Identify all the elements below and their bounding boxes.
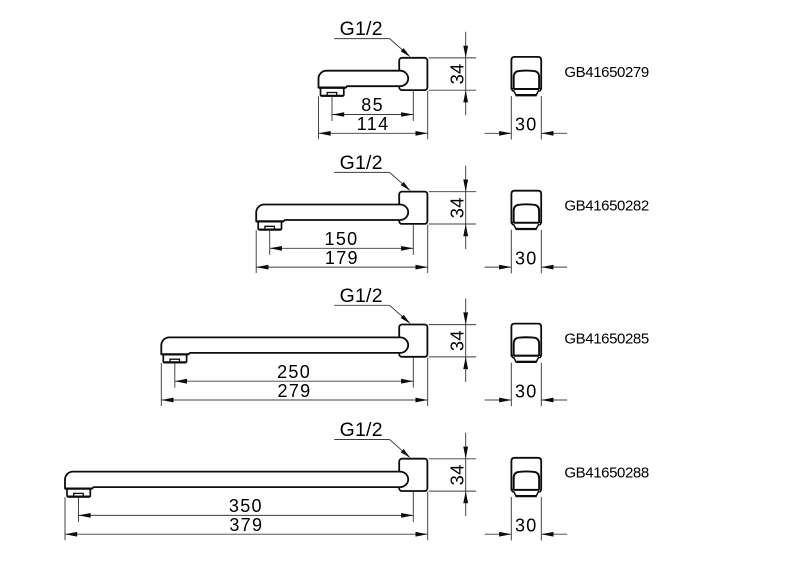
spout 3 aerator (side view) [163, 354, 186, 362]
spout 4 aerator bottom thick edge [68, 496, 89, 498]
spout 4 front view side tabs [512, 490, 514, 492]
dimension 30 row 3 [485, 399, 512, 401]
spout 4 tip bottom thick edge [66, 487, 92, 489]
extension line at block right edge row 3 [427, 358, 429, 407]
extension line at block right edge row 4 [427, 492, 429, 541]
spout 2 front view bottom edge [511, 222, 542, 224]
spout 1 wall block (side view) [399, 58, 427, 90]
spout 2 tip bottom thick edge [257, 220, 283, 222]
spout 2 front view tube face [514, 204, 539, 222]
spout 4 front view bottom edge [511, 489, 542, 491]
svg-text:179: 179 [325, 248, 359, 268]
spout 1 aerator insert (side view) [327, 93, 337, 96]
G1/2 leader line row 2 [334, 171, 389, 173]
spout 2 front view aerator [513, 224, 539, 229]
dimension 179 row 2 [256, 266, 428, 268]
spout 2 tube body (side view) [256, 205, 408, 222]
extension line at aerator centre row 1 [331, 96, 333, 121]
spout 3 front view side tabs [512, 355, 514, 357]
spout 4 wall block (side view) [399, 459, 427, 491]
extension lines front view row 1 [510, 96, 512, 140]
spout 1 front view outline [511, 57, 541, 89]
extension line at block centre row 3 [412, 358, 414, 388]
dimension 250 row 3 [175, 380, 413, 382]
spout 2 front view outline [511, 191, 541, 223]
spout 3 aerator bottom thick edge [164, 361, 185, 363]
svg-text:GB41650285: GB41650285 [564, 331, 648, 348]
dimension 114 row 1 [319, 132, 428, 134]
dimension 34 row 2 [465, 166, 467, 249]
extension line at block centre row 1 [412, 91, 414, 121]
spout 2 aerator insert (side view) [265, 226, 275, 229]
spout 1 tip bottom thick edge [319, 87, 345, 89]
extension line block bottom row 3 [429, 356, 477, 358]
svg-text:250: 250 [277, 362, 311, 382]
svg-text:30: 30 [515, 249, 538, 269]
spout 2 wall block (side view) [399, 192, 427, 224]
svg-text:GB41650282: GB41650282 [564, 198, 648, 215]
svg-text:85: 85 [361, 95, 384, 115]
spout 4 front view aerator [513, 491, 539, 496]
spout 4 front view tube face [514, 471, 539, 489]
spout 3 front view bottom edge [511, 355, 542, 357]
extension line at spout tip row 2 [255, 230, 257, 273]
svg-text:114: 114 [357, 114, 390, 134]
svg-text:G1/2: G1/2 [340, 152, 383, 174]
spout 2 aerator (side view) [258, 222, 281, 230]
svg-text:GB41650279: GB41650279 [564, 64, 648, 81]
extension line block top row 3 [429, 324, 477, 326]
spout 2 front view side tabs [512, 223, 514, 225]
spout 1 front view side tabs [512, 89, 514, 91]
extension lines front view row 3 [510, 363, 512, 407]
spout 4 aerator insert (side view) [74, 493, 84, 496]
spout 3 front view outline [511, 324, 541, 356]
dimension 85 row 1 [332, 114, 413, 116]
svg-text:34: 34 [448, 63, 468, 84]
svg-text:379: 379 [229, 515, 263, 535]
extension line at block right edge row 2 [427, 225, 429, 274]
svg-text:34: 34 [448, 197, 468, 218]
G1/2 leader line row 4 [334, 439, 389, 441]
extension line at block centre row 4 [412, 492, 414, 522]
dimension 34 row 3 [465, 299, 467, 382]
svg-text:30: 30 [515, 516, 538, 536]
extension lines front view row 2 [510, 230, 512, 274]
dimension 150 row 2 [270, 247, 414, 249]
spout 3 aerator insert (side view) [170, 359, 180, 362]
spout 3 tip bottom thick edge [162, 353, 188, 355]
dimension 30 row 2 [485, 266, 512, 268]
extension line at spout tip row 3 [160, 363, 162, 406]
extension line at block centre row 2 [412, 225, 414, 255]
dimension 34 row 1 [465, 32, 467, 115]
svg-text:34: 34 [448, 464, 468, 485]
svg-text:30: 30 [515, 115, 538, 135]
spout 1 aerator (side view) [321, 88, 344, 96]
svg-text:GB41650288: GB41650288 [564, 465, 648, 482]
spout 1 front view bottom edge [511, 88, 542, 90]
dimension 350 row 4 [79, 514, 414, 516]
extension line block top row 2 [429, 191, 477, 193]
dimension 30 row 4 [485, 533, 512, 535]
svg-text:G1/2: G1/2 [340, 419, 383, 441]
G1/2 leader line row 1 [334, 38, 389, 40]
extension line block bottom row 1 [429, 89, 477, 91]
extension line block bottom row 4 [429, 490, 477, 492]
dimension 30 row 1 [485, 132, 512, 134]
extension line at spout tip row 1 [318, 96, 320, 139]
extension line block top row 1 [429, 57, 477, 59]
G1/2 leader line row 3 [334, 304, 389, 306]
extension line at block right edge row 1 [427, 91, 429, 140]
spout 3 tube body (side view) [161, 337, 408, 354]
svg-text:350: 350 [229, 496, 263, 516]
svg-text:G1/2: G1/2 [340, 285, 383, 307]
svg-text:279: 279 [278, 381, 312, 401]
extension line at aerator centre row 4 [78, 497, 80, 522]
svg-text:34: 34 [448, 330, 468, 351]
extension line at spout tip row 4 [64, 497, 66, 540]
svg-text:30: 30 [515, 381, 538, 401]
extension line block bottom row 2 [429, 223, 477, 225]
spout 1 front view tube face [514, 71, 539, 89]
dimension 279 row 3 [161, 399, 427, 401]
dimension 34 row 4 [465, 433, 467, 516]
spout 1 aerator bottom thick edge [322, 95, 343, 97]
dimension 379 row 4 [65, 533, 428, 535]
spout 3 front view aerator [513, 357, 539, 362]
spout 3 front view tube face [514, 337, 539, 355]
spout 2 aerator bottom thick edge [259, 229, 280, 231]
extension lines front view row 4 [510, 497, 512, 541]
svg-text:G1/2: G1/2 [340, 18, 383, 40]
extension line at aerator centre row 2 [269, 230, 271, 255]
spout 4 front view outline [511, 458, 541, 490]
spout 4 aerator (side view) [67, 489, 90, 497]
extension line at aerator centre row 3 [174, 363, 176, 388]
spout 1 tube body (side view) [319, 71, 409, 88]
spout 4 tube body (side view) [65, 472, 408, 489]
spout 1 front view aerator [513, 90, 539, 95]
spout 3 wall block (side view) [399, 325, 427, 357]
extension line block top row 4 [429, 458, 477, 460]
svg-text:150: 150 [325, 229, 359, 249]
